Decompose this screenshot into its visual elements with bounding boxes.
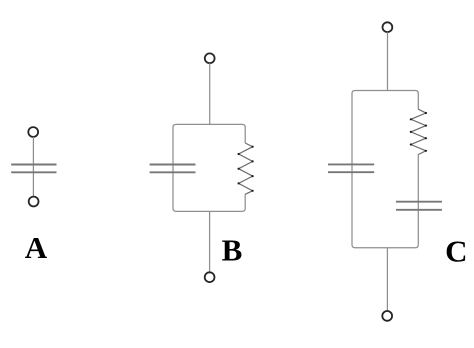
- svg-text:A: A: [25, 230, 48, 265]
- terminal node C-top: [383, 22, 393, 32]
- capacitor (B left branch): [150, 165, 196, 173]
- svg-text:B: B: [222, 233, 243, 268]
- resistor (B right branch): [238, 143, 254, 194]
- wire: [386, 248, 388, 311]
- capacitor (C left branch): [328, 164, 374, 172]
- capacitor (C right branch): [396, 202, 442, 210]
- terminal node B-top: [205, 53, 215, 63]
- wire: [209, 211, 211, 272]
- capacitor A: [11, 165, 56, 173]
- wire: [209, 63, 211, 124]
- terminal node C-bottom: [382, 311, 392, 321]
- wire: [387, 32, 389, 90]
- wire loop box C: [352, 91, 418, 248]
- terminal node A-top: [28, 127, 38, 137]
- svg-text:C: C: [445, 234, 467, 269]
- terminal node A-bottom: [29, 197, 39, 207]
- wire loop box B: [173, 124, 245, 211]
- wire: [32, 137, 34, 197]
- resistor (C right branch): [410, 109, 427, 154]
- terminal node B-bottom: [205, 272, 215, 282]
